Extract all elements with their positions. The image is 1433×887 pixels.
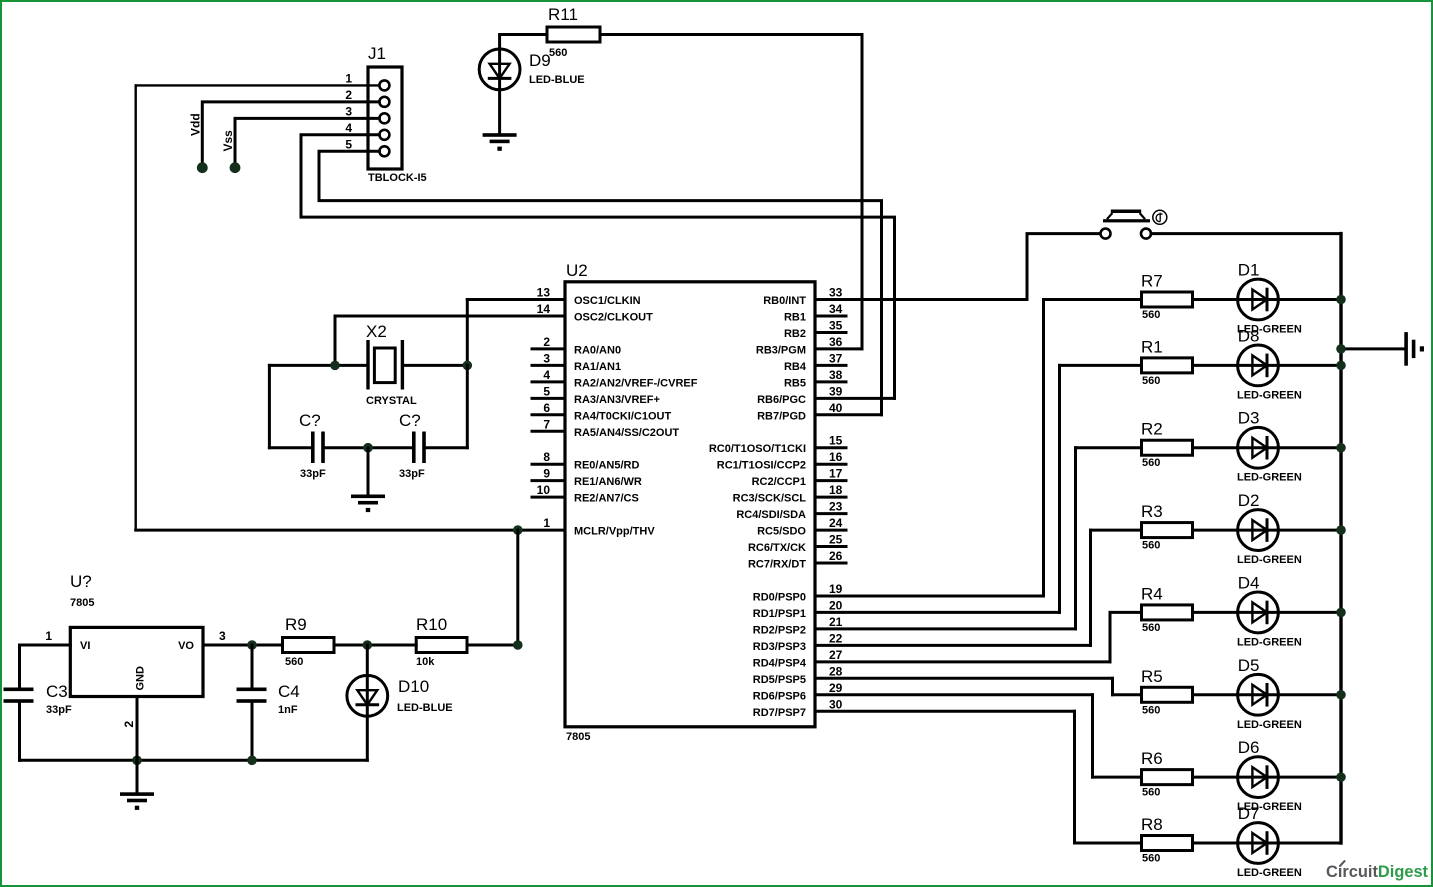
wire D6 to bus xyxy=(1278,776,1341,779)
U2 pin 1 MCLR/Vpp/THV stub/wire xyxy=(136,529,565,532)
U2 pin number 28 xyxy=(829,664,843,678)
svg-text:D6: D6 xyxy=(1238,738,1260,757)
svg-text:RC1/T1OSI/CCP2: RC1/T1OSI/CCP2 xyxy=(717,460,806,472)
label R6 value 560 xyxy=(1142,787,1160,799)
U2 pin 8 RE0/AN5/RD stub/wire xyxy=(532,463,565,466)
label D7 refdes xyxy=(1238,804,1260,823)
wire U2 OSC1 to crystal right node xyxy=(466,300,469,366)
U2 pin 28 RD5/PSP5 stub/wire xyxy=(815,677,1113,680)
svg-text:LED-BLUE: LED-BLUE xyxy=(529,74,585,86)
U2 pin name RA5/AN4/SS/C2OUT xyxy=(574,427,679,439)
U2 pin name RD1/PSP1 xyxy=(753,608,806,620)
LED D5 xyxy=(1238,674,1279,715)
U? pin number 3 xyxy=(219,629,226,643)
junction VO-C4 node xyxy=(247,640,257,650)
label R1 value 560 xyxy=(1142,375,1160,387)
U2 pin 21 RD2/PSP2 stub/wire xyxy=(815,627,1076,630)
svg-text:D7: D7 xyxy=(1238,804,1260,823)
svg-text:RA2/AN2/VREF-/CVREF: RA2/AN2/VREF-/CVREF xyxy=(574,377,698,389)
label D6 refdes xyxy=(1238,738,1260,757)
resistor R3 xyxy=(1142,523,1193,538)
svg-text:RD2/PSP2: RD2/PSP2 xyxy=(753,624,806,636)
U2 pin number 17 xyxy=(829,467,843,481)
label U? refdes xyxy=(70,572,92,591)
junction bus-D2 xyxy=(1336,525,1346,535)
svg-text:1: 1 xyxy=(543,516,550,530)
wire D2 to bus xyxy=(1278,529,1341,532)
U2 pin 22 RD3/PSP3 stub/wire xyxy=(815,644,1091,647)
resistor R6 xyxy=(1142,770,1193,785)
J1 pin 5 circle xyxy=(379,146,389,156)
svg-text:RC4/SDI/SDA: RC4/SDI/SDA xyxy=(736,509,806,521)
U2 pin 18 RC3/SCK/SCL stub/wire xyxy=(815,496,846,499)
ground below regulator xyxy=(120,792,154,810)
svg-text:1: 1 xyxy=(45,629,52,643)
label D1 value LED-GREEN xyxy=(1237,324,1302,336)
svg-text:3: 3 xyxy=(345,104,352,118)
svg-text:2: 2 xyxy=(345,88,352,102)
svg-text:14: 14 xyxy=(537,302,551,316)
U2 pin number 15 xyxy=(829,434,843,448)
svg-text:2: 2 xyxy=(122,721,136,728)
button actuator icon xyxy=(1153,210,1167,224)
wire U2 pin to R5 xyxy=(1113,678,1142,694)
svg-text:X2: X2 xyxy=(366,322,387,341)
svg-text:RB1: RB1 xyxy=(784,311,806,323)
label D9 refdes xyxy=(529,51,551,70)
U2 pin name RD4/PSP4 xyxy=(753,657,807,669)
label R3 value 560 xyxy=(1142,540,1160,552)
U2 pin name RB4 xyxy=(784,361,807,373)
label U2 value 7805 xyxy=(566,731,590,743)
label D4 refdes xyxy=(1238,573,1260,592)
wire U2 pin to R3 xyxy=(1091,530,1142,645)
svg-text:R7: R7 xyxy=(1141,272,1163,291)
svg-text:U?: U? xyxy=(70,572,92,591)
svg-text:10k: 10k xyxy=(416,656,435,668)
svg-text:C?: C? xyxy=(299,411,321,430)
label C? right value 33pF xyxy=(399,468,425,480)
svg-text:2: 2 xyxy=(543,335,550,349)
wire J1 pin3 to Vss terminal xyxy=(235,118,379,166)
wire right ground bus xyxy=(1339,234,1342,843)
svg-text:22: 22 xyxy=(829,631,843,645)
U2 pin number 22 xyxy=(829,631,843,645)
U2 pin number 21 xyxy=(829,615,843,629)
svg-text:RB5: RB5 xyxy=(784,377,806,389)
label J1 refdes xyxy=(368,44,386,63)
svg-text:34: 34 xyxy=(829,302,843,316)
svg-text:560: 560 xyxy=(1142,853,1160,865)
label C? left refdes xyxy=(299,411,321,430)
wire left cap branch xyxy=(269,365,311,447)
wire right cap to OSC1 vertical xyxy=(426,365,468,447)
label R5 value 560 xyxy=(1142,704,1160,716)
label R11 refdes xyxy=(548,5,578,24)
svg-text:CRYSTAL: CRYSTAL xyxy=(366,395,417,407)
wire R4 to D4 xyxy=(1193,611,1238,614)
label R8 refdes xyxy=(1141,815,1163,834)
U2 pin 34 RB1 stub/wire xyxy=(815,314,846,317)
wire R3 to D2 xyxy=(1193,529,1238,532)
svg-text:560: 560 xyxy=(1142,309,1160,321)
svg-text:RA4/T0CKI/C1OUT: RA4/T0CKI/C1OUT xyxy=(574,410,671,422)
U2 pin number 24 xyxy=(829,516,843,530)
svg-text:C4: C4 xyxy=(278,682,300,701)
U2 pin name RE0/AN5/RD xyxy=(574,460,639,472)
U2 pin number 37 xyxy=(829,351,843,365)
J1 pin 3 circle xyxy=(379,113,389,123)
svg-text:RE1/AN6/WR: RE1/AN6/WR xyxy=(574,476,642,488)
svg-text:LED-GREEN: LED-GREEN xyxy=(1237,554,1302,566)
svg-text:560: 560 xyxy=(1142,540,1160,552)
crystal X2 xyxy=(366,340,404,390)
U2 pin 7 RA5/AN4/SS/C2OUT stub/wire xyxy=(532,430,565,433)
U2 pin number 35 xyxy=(829,318,843,332)
U2 pin number 9 xyxy=(543,467,550,481)
resistor R7 xyxy=(1142,292,1193,307)
wire R7 to D1 xyxy=(1193,298,1238,301)
wire U2 pin to R8 xyxy=(1075,711,1142,843)
U2 pin name RC7/RX/DT xyxy=(748,559,806,571)
label D10 refdes xyxy=(398,677,429,696)
wire J1 pin5 to U2 RB7/PGD xyxy=(319,151,882,415)
svg-text:8: 8 xyxy=(543,450,550,464)
U2 pin 6 RA4/T0CKI/C1OUT stub/wire xyxy=(532,413,565,416)
svg-text:39: 39 xyxy=(829,384,843,398)
wire D5 to bus xyxy=(1278,693,1341,696)
LED D10 xyxy=(347,645,388,760)
svg-text:18: 18 xyxy=(829,483,843,497)
svg-text:24: 24 xyxy=(829,516,843,530)
wire D4 to bus xyxy=(1278,611,1341,614)
label D3 refdes xyxy=(1238,409,1260,428)
junction bus-D5 xyxy=(1336,690,1346,700)
U2 pin number 26 xyxy=(829,549,843,563)
U2 pin 13 OSC1/CLKIN stub/wire xyxy=(467,298,565,301)
U2 pin name RA2/AN2/VREF-/CVREF xyxy=(574,377,698,389)
U2 pin name RB3/PGM xyxy=(756,344,806,356)
wire R6 to D6 xyxy=(1193,776,1238,779)
wire button to right bus xyxy=(1151,232,1341,235)
U2 pin name MCLR/Vpp/THV xyxy=(574,526,655,538)
U? pin GND label xyxy=(135,666,147,691)
label J1 value TBLOCK-I5 xyxy=(368,172,427,184)
LED D8 xyxy=(1238,345,1279,386)
U2 pin number 40 xyxy=(829,401,843,415)
wire J1 pin1 to MCLR vertical xyxy=(136,85,380,530)
wire U2 pin to R4 xyxy=(1110,612,1142,661)
U2 pin number 33 xyxy=(829,286,843,300)
U2 pin number 25 xyxy=(829,533,843,547)
junction bus-D3 xyxy=(1336,443,1346,453)
U2 pin 17 RC2/CCP1 stub/wire xyxy=(815,479,846,482)
label C4 refdes xyxy=(278,682,300,701)
U2 pin name RA4/T0CKI/C1OUT xyxy=(574,410,671,422)
wire R11 left to D9 anode xyxy=(500,35,547,49)
J1 pin 2 circle xyxy=(379,97,389,107)
svg-text:R2: R2 xyxy=(1141,420,1163,439)
svg-text:23: 23 xyxy=(829,500,843,514)
U2 pin 14 OSC2/CLKOUT stub/wire xyxy=(335,314,565,317)
svg-text:560: 560 xyxy=(1142,622,1160,634)
svg-text:OSC2/CLKOUT: OSC2/CLKOUT xyxy=(574,311,653,323)
svg-text:Vdd: Vdd xyxy=(189,113,203,136)
U2 pin name RE2/AN7/CS xyxy=(574,493,639,505)
svg-text:19: 19 xyxy=(829,582,843,596)
U2 pin 16 RC1/T1OSI/CCP2 stub/wire xyxy=(815,463,846,466)
svg-text:13: 13 xyxy=(537,286,551,300)
svg-text:R8: R8 xyxy=(1141,815,1163,834)
label C4 value 1nF xyxy=(278,704,298,716)
U? pin number 2 xyxy=(122,721,136,728)
U? pin VO label xyxy=(178,640,194,652)
svg-text:17: 17 xyxy=(829,467,843,481)
svg-text:7805: 7805 xyxy=(70,597,94,609)
J1 pin number 4 xyxy=(345,121,352,135)
U2 pin 26 RC7/RX/DT stub/wire xyxy=(815,562,846,565)
svg-text:R10: R10 xyxy=(416,615,447,634)
wire J1 pin4 to U2 RB6/PGC xyxy=(301,135,895,399)
svg-text:D2: D2 xyxy=(1238,491,1260,510)
U2 pin number 7 xyxy=(543,417,550,431)
U2 pin 37 RB4 stub/wire xyxy=(815,364,846,367)
svg-text:RC0/T1OSO/T1CKI: RC0/T1OSO/T1CKI xyxy=(709,443,806,455)
J1 pin number 1 xyxy=(345,71,352,85)
svg-text:D8: D8 xyxy=(1238,326,1260,345)
U2 pin name RD6/PSP6 xyxy=(753,690,806,702)
U2 pin 27 RD4/PSP4 stub/wire xyxy=(815,660,1110,663)
svg-text:1: 1 xyxy=(345,71,352,85)
label D8 refdes xyxy=(1238,326,1260,345)
svg-text:7805: 7805 xyxy=(566,731,590,743)
U2 pin 39 RB6/PGC stub/wire xyxy=(815,397,895,400)
U2 pin number 1 xyxy=(543,516,550,530)
svg-text:560: 560 xyxy=(1142,787,1160,799)
LED D6 xyxy=(1238,757,1279,798)
svg-text:D9: D9 xyxy=(529,51,551,70)
label D4 value LED-GREEN xyxy=(1237,636,1302,648)
junction crystal left xyxy=(330,361,340,371)
label C? right refdes xyxy=(399,411,421,430)
resistor R8 xyxy=(1142,836,1193,851)
svg-text:560: 560 xyxy=(1142,457,1160,469)
svg-text:LED-GREEN: LED-GREEN xyxy=(1237,472,1302,484)
svg-text:Vss: Vss xyxy=(221,130,235,152)
svg-text:U2: U2 xyxy=(566,261,588,280)
wire VI input xyxy=(20,645,71,688)
label U? value 7805 xyxy=(70,597,94,609)
wire D8 to bus xyxy=(1278,364,1341,367)
U2 pin name RA0/AN0 xyxy=(574,344,621,356)
svg-text:4: 4 xyxy=(345,121,352,135)
U2 pin 40 RB7/PGD stub/wire xyxy=(815,413,882,416)
U2 pin number 23 xyxy=(829,500,843,514)
LED D7 xyxy=(1238,823,1279,864)
wire caps center to ground xyxy=(367,448,370,495)
U2 pin name RC4/SDI/SDA xyxy=(736,509,806,521)
svg-text:20: 20 xyxy=(829,598,843,612)
label D5 refdes xyxy=(1238,656,1260,675)
wire MCLR node down to R10 xyxy=(516,530,519,645)
J1 pin number 2 xyxy=(345,88,352,102)
svg-text:RB4: RB4 xyxy=(784,361,807,373)
label C3 value 33pF xyxy=(46,704,72,716)
U2 pin number 29 xyxy=(829,681,843,695)
svg-text:RA1/AN1: RA1/AN1 xyxy=(574,361,621,373)
svg-text:5: 5 xyxy=(543,384,550,398)
svg-text:R5: R5 xyxy=(1141,667,1163,686)
svg-text:33: 33 xyxy=(829,286,843,300)
U2 pin 24 RC5/SDO stub/wire xyxy=(815,529,846,532)
svg-text:RD3/PSP3: RD3/PSP3 xyxy=(753,641,806,653)
LED D9 xyxy=(479,49,520,134)
capacitor C? left xyxy=(311,432,325,464)
wire ground rail xyxy=(20,759,368,762)
U2 pin number 4 xyxy=(543,368,550,382)
U2 pin number 6 xyxy=(543,401,550,415)
U2 pin number 16 xyxy=(829,450,843,464)
label R2 refdes xyxy=(1141,420,1163,439)
U2 pin name OSC1/CLKIN xyxy=(574,295,641,307)
U2 pin 33 RB0/INT stub/wire xyxy=(815,298,1027,301)
svg-text:MCLR/Vpp/THV: MCLR/Vpp/THV xyxy=(574,526,655,538)
U2 pin name RC0/T1OSO/T1CKI xyxy=(709,443,806,455)
svg-text:30: 30 xyxy=(829,697,843,711)
U2 pin name RB0/INT xyxy=(763,295,806,307)
label R8 value 560 xyxy=(1142,853,1160,865)
resistor R1 xyxy=(1142,358,1193,373)
resistor R11 xyxy=(547,27,600,42)
resistor R5 xyxy=(1142,687,1193,702)
label D10 value LED-BLUE xyxy=(397,702,453,714)
label R6 refdes xyxy=(1141,749,1163,768)
svg-text:27: 27 xyxy=(829,648,843,662)
svg-text:RB7/PGD: RB7/PGD xyxy=(757,410,806,422)
svg-text:RD6/PSP6: RD6/PSP6 xyxy=(753,690,806,702)
svg-text:TBLOCK-I5: TBLOCK-I5 xyxy=(368,172,427,184)
U2 pin number 38 xyxy=(829,368,843,382)
U2 pin number 5 xyxy=(543,384,550,398)
svg-text:D1: D1 xyxy=(1238,261,1260,280)
svg-text:3: 3 xyxy=(543,351,550,365)
svg-text:RC3/SCK/SCL: RC3/SCK/SCL xyxy=(733,493,807,505)
resistor R9 xyxy=(283,638,335,653)
junction bus-D8 xyxy=(1336,361,1346,371)
svg-text:38: 38 xyxy=(829,368,843,382)
resistor R2 xyxy=(1142,440,1193,455)
U2 pin name RC3/SCK/SCL xyxy=(733,493,807,505)
resistor R10 xyxy=(416,638,467,653)
svg-text:RB2: RB2 xyxy=(784,328,806,340)
svg-text:LED-GREEN: LED-GREEN xyxy=(1237,719,1302,731)
svg-text:560: 560 xyxy=(549,47,567,59)
U2 pin name RB2 xyxy=(784,328,806,340)
svg-text:560: 560 xyxy=(1142,704,1160,716)
push button SW1 xyxy=(1101,210,1152,239)
wire U2 OSC2 to crystal left node xyxy=(334,316,337,365)
svg-text:LED-GREEN: LED-GREEN xyxy=(1237,389,1302,401)
label R2 value 560 xyxy=(1142,457,1160,469)
U2 pin number 30 xyxy=(829,697,843,711)
label R9 value 560 xyxy=(285,656,303,668)
U2 pin number 19 xyxy=(829,582,843,596)
wire crystal row xyxy=(269,364,467,367)
U2 pin name RD2/PSP2 xyxy=(753,624,806,636)
svg-text:7: 7 xyxy=(543,417,550,431)
resistor R4 xyxy=(1142,605,1193,620)
wire R2 to D3 xyxy=(1193,446,1238,449)
svg-text:21: 21 xyxy=(829,615,843,629)
U2 pin 29 RD6/PSP6 stub/wire xyxy=(815,693,1093,696)
U? pin VI label xyxy=(80,640,90,652)
label R7 refdes xyxy=(1141,272,1163,291)
label R4 refdes xyxy=(1141,584,1163,603)
LED D1 xyxy=(1238,279,1279,320)
svg-text:RA3/AN3/VREF+: RA3/AN3/VREF+ xyxy=(574,394,660,406)
label R3 refdes xyxy=(1141,502,1163,521)
U2 pin name RC1/T1OSI/CCP2 xyxy=(717,460,806,472)
wire R11 right to U2 RB3/PGM xyxy=(600,35,862,349)
junction rail-GND pin xyxy=(132,756,142,766)
svg-text:RE2/AN7/CS: RE2/AN7/CS xyxy=(574,493,639,505)
svg-text:5: 5 xyxy=(345,137,352,151)
svg-text:D10: D10 xyxy=(398,677,429,696)
wire R10 to MCLR node xyxy=(467,644,518,647)
label D6 value LED-GREEN xyxy=(1237,801,1302,813)
terminal Vss dot xyxy=(230,162,241,173)
svg-text:6: 6 xyxy=(543,401,550,415)
label C? left value 33pF xyxy=(300,468,326,480)
ground below D9 xyxy=(483,133,517,151)
U2 pin number 27 xyxy=(829,648,843,662)
label X2 refdes xyxy=(366,322,387,341)
U2 pin 36 RB3/PGM stub/wire xyxy=(815,347,862,350)
svg-text:RA0/AN0: RA0/AN0 xyxy=(574,344,621,356)
svg-text:D5: D5 xyxy=(1238,656,1260,675)
U2 pin number 3 xyxy=(543,351,550,365)
U2 pin name RA3/AN3/VREF+ xyxy=(574,394,660,406)
U2 pin number 39 xyxy=(829,384,843,398)
svg-text:25: 25 xyxy=(829,533,843,547)
U2 pin 4 RA2/AN2/VREF-/CVREF stub/wire xyxy=(532,380,565,383)
U2 pin number 34 xyxy=(829,302,843,316)
U2 pin 9 RE1/AN6/WR stub/wire xyxy=(532,479,565,482)
junction caps center xyxy=(363,443,373,453)
svg-text:GND: GND xyxy=(135,666,147,691)
svg-text:D4: D4 xyxy=(1238,573,1260,592)
label Vss xyxy=(221,130,235,152)
U2 pin name RD5/PSP5 xyxy=(753,674,806,686)
label R11 value 560 xyxy=(549,47,567,59)
label D3 value LED-GREEN xyxy=(1237,472,1302,484)
svg-text:16: 16 xyxy=(829,450,843,464)
U2 pin number 36 xyxy=(829,335,843,349)
wire R5 to D5 xyxy=(1193,693,1238,696)
svg-text:9: 9 xyxy=(543,467,550,481)
junction rail-C4 xyxy=(247,756,257,766)
svg-text:LED-GREEN: LED-GREEN xyxy=(1237,636,1302,648)
svg-text:28: 28 xyxy=(829,664,843,678)
svg-text:36: 36 xyxy=(829,335,843,349)
wire D7 to bus xyxy=(1278,842,1341,845)
junction R10 right node xyxy=(513,640,523,650)
label D7 value LED-GREEN xyxy=(1237,867,1302,879)
capacitor C3 xyxy=(4,688,34,761)
LED D4 xyxy=(1238,592,1279,633)
svg-text:RD4/PSP4: RD4/PSP4 xyxy=(753,657,807,669)
svg-text:J1: J1 xyxy=(368,44,386,63)
